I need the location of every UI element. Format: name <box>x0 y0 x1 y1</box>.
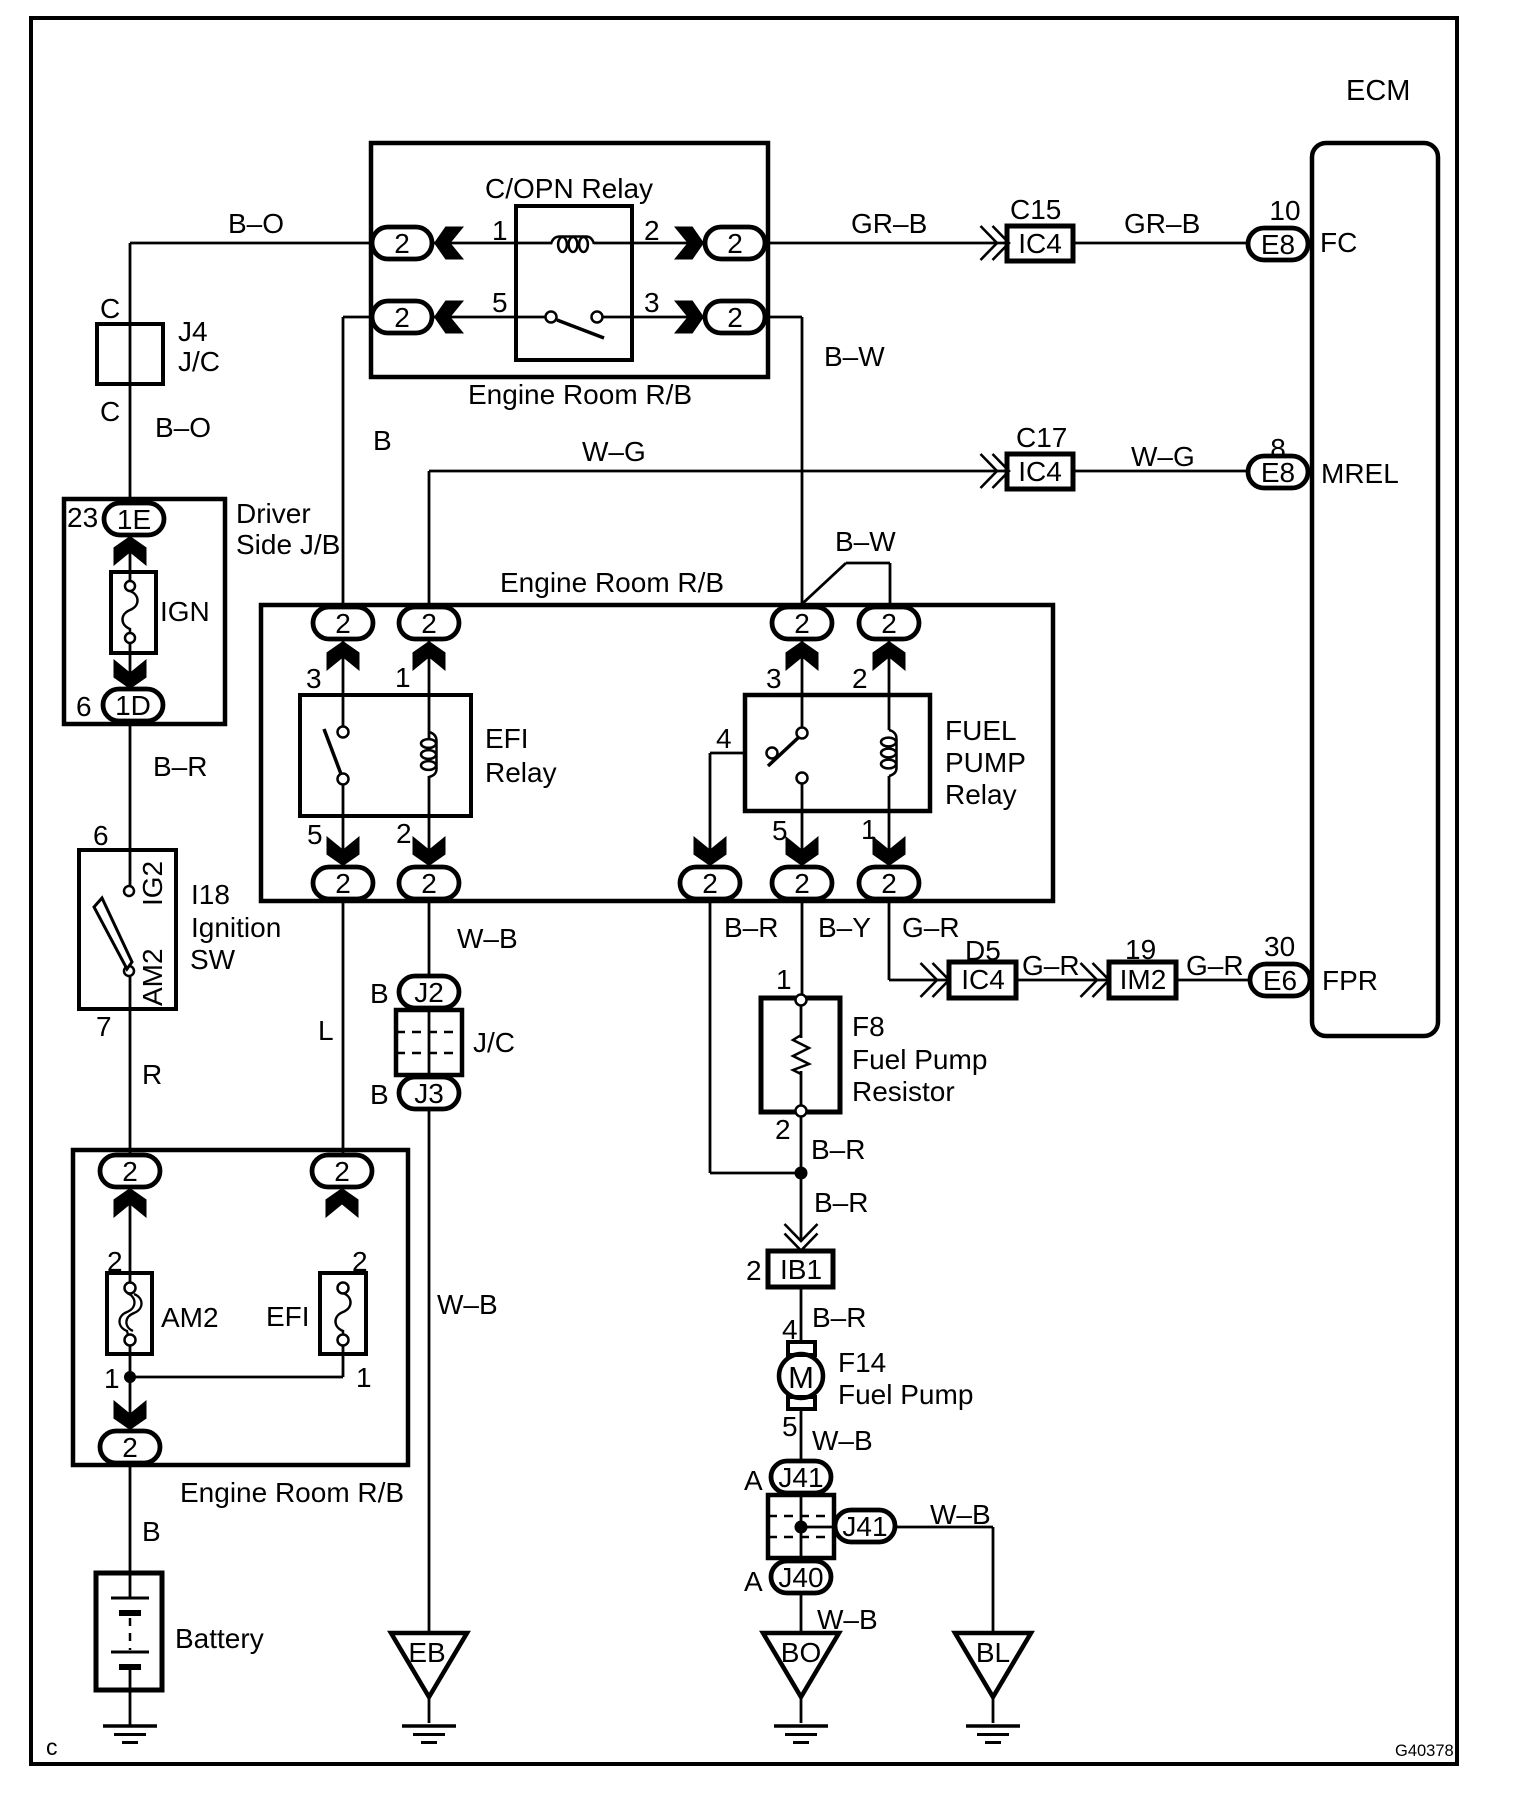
svg-text:23: 23 <box>67 502 98 533</box>
svg-text:Resistor: Resistor <box>852 1076 955 1107</box>
svg-text:2: 2 <box>334 1156 350 1187</box>
svg-text:B: B <box>370 978 389 1009</box>
svg-text:8: 8 <box>1270 433 1286 464</box>
svg-text:1: 1 <box>776 964 792 995</box>
svg-text:W–B: W–B <box>817 1604 878 1635</box>
svg-text:G40378: G40378 <box>1395 1742 1454 1760</box>
svg-text:J/C: J/C <box>473 1027 515 1058</box>
svg-text:2: 2 <box>881 868 897 899</box>
svg-text:Ignition: Ignition <box>191 912 281 943</box>
svg-text:B–R: B–R <box>814 1187 868 1218</box>
svg-text:2: 2 <box>421 868 437 899</box>
svg-text:2: 2 <box>394 302 410 333</box>
svg-text:B: B <box>373 425 392 456</box>
svg-text:W–B: W–B <box>457 923 518 954</box>
svg-text:B–R: B–R <box>811 1134 865 1165</box>
svg-text:2: 2 <box>122 1432 138 1463</box>
svg-text:ECM: ECM <box>1346 75 1410 107</box>
svg-text:EFI: EFI <box>485 723 529 754</box>
svg-text:IC4: IC4 <box>1018 228 1062 259</box>
svg-text:W–B: W–B <box>437 1289 498 1320</box>
svg-text:3: 3 <box>766 663 782 694</box>
svg-text:A: A <box>744 1566 763 1597</box>
svg-text:MREL: MREL <box>1321 458 1399 489</box>
svg-text:GR–B: GR–B <box>1124 208 1200 239</box>
svg-text:I18: I18 <box>191 879 230 910</box>
svg-text:2: 2 <box>421 608 437 639</box>
svg-text:2: 2 <box>727 302 743 333</box>
svg-text:3: 3 <box>306 663 322 694</box>
svg-text:IB1: IB1 <box>780 1254 822 1285</box>
svg-text:L: L <box>318 1015 334 1046</box>
svg-text:5: 5 <box>492 287 508 318</box>
svg-text:Engine Room R/B: Engine Room R/B <box>180 1477 404 1508</box>
svg-text:19: 19 <box>1125 934 1156 965</box>
svg-text:2: 2 <box>794 868 810 899</box>
svg-text:2: 2 <box>107 1246 123 1277</box>
svg-text:30: 30 <box>1264 931 1295 962</box>
svg-text:G–R: G–R <box>1186 950 1244 981</box>
svg-text:Driver: Driver <box>236 498 311 529</box>
svg-text:Engine Room R/B: Engine Room R/B <box>468 379 692 410</box>
svg-text:E6: E6 <box>1263 965 1297 996</box>
svg-text:J3: J3 <box>414 1078 444 1109</box>
svg-text:2: 2 <box>881 608 897 639</box>
svg-text:5: 5 <box>307 819 323 850</box>
svg-text:IC4: IC4 <box>1018 456 1062 487</box>
svg-text:B–W: B–W <box>835 526 896 557</box>
svg-text:C: C <box>100 396 120 427</box>
svg-text:Battery: Battery <box>175 1623 264 1654</box>
svg-text:EB: EB <box>408 1637 445 1668</box>
svg-text:M: M <box>788 1360 814 1395</box>
svg-text:IGN: IGN <box>160 596 210 627</box>
svg-text:A: A <box>744 1465 763 1496</box>
svg-text:B–R: B–R <box>812 1302 866 1333</box>
svg-text:J/C: J/C <box>178 346 220 377</box>
svg-text:AM2: AM2 <box>161 1302 219 1333</box>
svg-text:2: 2 <box>702 868 718 899</box>
svg-text:1: 1 <box>356 1362 372 1393</box>
svg-text:J41: J41 <box>778 1462 823 1493</box>
svg-text:B–R: B–R <box>724 912 778 943</box>
svg-text:2: 2 <box>335 608 351 639</box>
svg-text:G–R: G–R <box>1022 950 1080 981</box>
svg-text:2: 2 <box>727 228 743 259</box>
svg-text:2: 2 <box>122 1156 138 1187</box>
svg-text:W–G: W–G <box>1131 441 1195 472</box>
svg-text:3: 3 <box>644 287 660 318</box>
svg-text:FPR: FPR <box>1322 965 1378 996</box>
svg-text:2: 2 <box>794 608 810 639</box>
svg-text:C15: C15 <box>1010 194 1061 225</box>
svg-text:Fuel Pump: Fuel Pump <box>852 1044 987 1075</box>
svg-text:2: 2 <box>335 868 351 899</box>
svg-text:Relay: Relay <box>485 757 557 788</box>
svg-text:W–G: W–G <box>582 436 646 467</box>
svg-text:F8: F8 <box>852 1011 885 1042</box>
svg-text:4: 4 <box>716 723 732 754</box>
svg-text:Engine Room R/B: Engine Room R/B <box>500 567 724 598</box>
svg-text:PUMP: PUMP <box>945 747 1026 778</box>
svg-text:B–Y: B–Y <box>818 912 871 943</box>
svg-text:W–B: W–B <box>812 1425 873 1456</box>
svg-text:R: R <box>142 1059 162 1090</box>
svg-text:5: 5 <box>782 1411 798 1442</box>
svg-text:2: 2 <box>852 663 868 694</box>
svg-text:J2: J2 <box>414 977 444 1008</box>
svg-text:Relay: Relay <box>945 779 1017 810</box>
svg-text:2: 2 <box>352 1246 368 1277</box>
svg-text:5: 5 <box>772 815 788 846</box>
svg-text:B–R: B–R <box>153 751 207 782</box>
svg-text:C: C <box>100 293 120 324</box>
svg-text:J4: J4 <box>178 316 208 347</box>
svg-text:1: 1 <box>861 814 877 845</box>
svg-text:2: 2 <box>396 818 412 849</box>
svg-text:Fuel Pump: Fuel Pump <box>838 1379 973 1410</box>
svg-text:7: 7 <box>96 1011 112 1042</box>
svg-text:D5: D5 <box>965 935 1001 966</box>
svg-text:2: 2 <box>644 215 660 246</box>
svg-text:4: 4 <box>782 1314 798 1345</box>
svg-text:IG2: IG2 <box>137 861 168 906</box>
svg-text:F14: F14 <box>838 1347 886 1378</box>
svg-text:1D: 1D <box>115 690 151 721</box>
svg-text:AM2: AM2 <box>137 948 168 1006</box>
svg-text:IM2: IM2 <box>1120 964 1167 995</box>
svg-text:B: B <box>142 1516 161 1547</box>
svg-text:FUEL: FUEL <box>945 715 1017 746</box>
svg-text:G–R: G–R <box>902 912 960 943</box>
svg-text:B–O: B–O <box>228 208 284 239</box>
svg-text:2: 2 <box>775 1114 791 1145</box>
svg-text:1: 1 <box>395 662 411 693</box>
svg-text:1E: 1E <box>117 504 151 535</box>
svg-text:J41: J41 <box>842 1511 887 1542</box>
svg-text:FC: FC <box>1320 227 1357 258</box>
svg-text:1: 1 <box>492 215 508 246</box>
svg-text:E8: E8 <box>1261 229 1295 260</box>
svg-text:EFI: EFI <box>266 1301 310 1332</box>
svg-text:W–B: W–B <box>930 1499 991 1530</box>
svg-text:GR–B: GR–B <box>851 208 927 239</box>
svg-text:IC4: IC4 <box>961 964 1005 995</box>
svg-text:BO: BO <box>781 1637 821 1668</box>
svg-text:c: c <box>46 1734 58 1760</box>
svg-text:B–W: B–W <box>824 341 885 372</box>
svg-text:B: B <box>370 1079 389 1110</box>
svg-text:6: 6 <box>93 820 109 851</box>
svg-text:6: 6 <box>76 691 92 722</box>
svg-text:C/OPN Relay: C/OPN Relay <box>485 173 653 204</box>
svg-text:B–O: B–O <box>155 412 211 443</box>
svg-text:C17: C17 <box>1016 422 1067 453</box>
svg-text:10: 10 <box>1269 195 1300 226</box>
svg-text:1: 1 <box>104 1363 120 1394</box>
svg-text:J40: J40 <box>778 1562 823 1593</box>
svg-text:2: 2 <box>394 228 410 259</box>
svg-text:2: 2 <box>746 1255 762 1286</box>
svg-text:SW: SW <box>190 944 236 975</box>
svg-text:BL: BL <box>976 1637 1010 1668</box>
svg-text:Side J/B: Side J/B <box>236 529 340 560</box>
